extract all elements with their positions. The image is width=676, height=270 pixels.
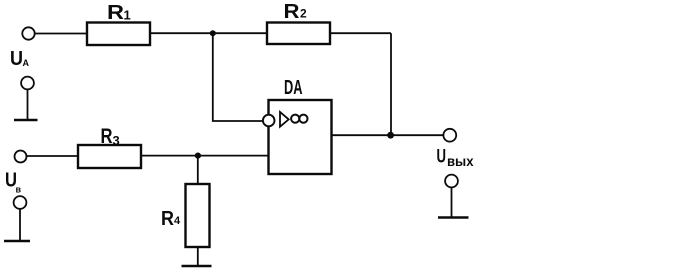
wire Ub terminal to R3 bbox=[27, 155, 79, 157]
ground under Uout bbox=[438, 216, 469, 219]
ground under Ub bbox=[4, 240, 30, 243]
wire Ua lower terminal to ground bbox=[27, 90, 29, 120]
resistor R2 bbox=[267, 23, 330, 45]
node J1 junction dot bbox=[210, 30, 216, 36]
op-amp infinity gain symbol bbox=[291, 115, 307, 123]
op-amp amplifier triangle symbol bbox=[280, 112, 289, 127]
terminal Uout bbox=[443, 129, 456, 142]
wire Ub lower terminal to ground bbox=[19, 209, 21, 240]
ground under Ua bbox=[14, 119, 38, 122]
wire R3 to op-amp noninverting input through node J3 bbox=[141, 155, 269, 157]
resistor R4 bbox=[186, 184, 210, 247]
resistor R3 bbox=[78, 145, 141, 168]
svg-text:4: 4 bbox=[174, 215, 181, 227]
terminal Ua reference bbox=[21, 77, 34, 90]
svg-text:вых: вых bbox=[447, 153, 474, 169]
wire node J3 down to R4 bbox=[197, 156, 199, 184]
wire node J1 down and right to inverting input bbox=[213, 33, 263, 121]
ground under R4 bbox=[182, 265, 212, 268]
terminal Ub bbox=[15, 151, 27, 163]
wire Ua terminal to R1 bbox=[35, 33, 88, 35]
svg-text:A: A bbox=[23, 58, 30, 68]
svg-text:DA: DA bbox=[284, 77, 303, 99]
node J3 junction dot bbox=[195, 153, 201, 159]
terminal Ua bbox=[22, 27, 34, 39]
wire R2 to top-right corner bbox=[330, 32, 391, 34]
wire Uout lower terminal to ground bbox=[451, 188, 453, 217]
wire op-amp output to Uout terminal bbox=[332, 134, 443, 136]
svg-text:U: U bbox=[437, 147, 447, 168]
svg-text:R: R bbox=[107, 2, 125, 24]
svg-text:в: в bbox=[16, 185, 22, 195]
terminal Uout reference bbox=[445, 175, 458, 188]
node J2 output junction dot bbox=[387, 132, 394, 139]
wire R4 to ground bbox=[197, 247, 199, 266]
svg-text:2: 2 bbox=[300, 7, 307, 21]
svg-text:U: U bbox=[10, 48, 23, 70]
op-amp inverting input circle bbox=[263, 115, 275, 127]
terminal Ub reference bbox=[14, 196, 27, 209]
wire R1 to R2 through node J1 bbox=[150, 32, 267, 34]
op-amp DA body bbox=[269, 100, 332, 174]
svg-text:R: R bbox=[101, 125, 113, 148]
svg-text:R: R bbox=[161, 208, 174, 230]
resistor R1 bbox=[87, 23, 150, 46]
svg-text:R: R bbox=[284, 1, 301, 23]
svg-text:3: 3 bbox=[113, 133, 120, 148]
svg-text:1: 1 bbox=[124, 8, 131, 23]
wire feedback vertical down to output node bbox=[390, 33, 392, 135]
